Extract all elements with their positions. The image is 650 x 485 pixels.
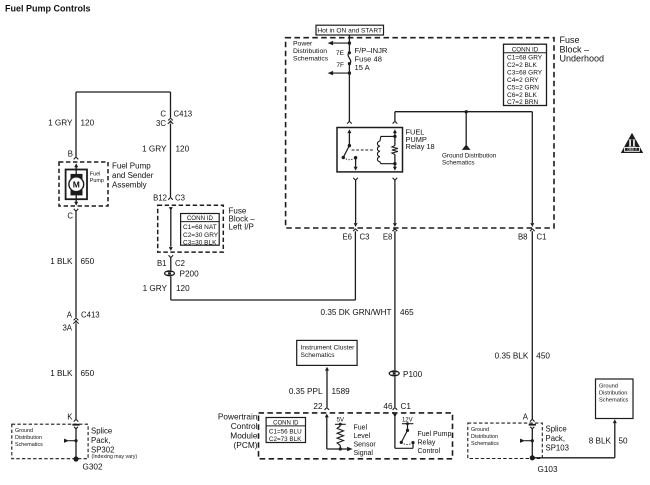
svg-text:120: 120 (81, 119, 95, 128)
svg-text:Schematics: Schematics (471, 441, 499, 447)
svg-text:Power: Power (293, 41, 313, 48)
svg-text:P200: P200 (180, 270, 200, 279)
svg-text:SP103: SP103 (546, 444, 569, 453)
svg-text:Schematics: Schematics (442, 159, 475, 166)
svg-text:Ground: Ground (599, 383, 618, 389)
svg-text:450: 450 (536, 351, 550, 360)
svg-text:C3: C3 (360, 233, 370, 242)
svg-text:Fuel: Fuel (90, 172, 101, 178)
svg-text:C413: C413 (81, 310, 100, 319)
svg-text:Instrument Cluster: Instrument Cluster (301, 344, 356, 351)
svg-text:C1=68 NAT: C1=68 NAT (183, 224, 217, 231)
svg-text:C1=68 GRY: C1=68 GRY (507, 55, 543, 62)
svg-text:1 BLK: 1 BLK (50, 257, 73, 266)
svg-text:Relay 18: Relay 18 (406, 142, 435, 151)
svg-text:CONN ID: CONN ID (273, 421, 299, 427)
svg-text:Underhood: Underhood (560, 54, 605, 64)
svg-text:OBD II: OBD II (627, 148, 637, 152)
svg-text:C1=56 BLU: C1=56 BLU (269, 428, 302, 435)
svg-text:M: M (73, 179, 80, 189)
svg-text:120: 120 (176, 145, 190, 154)
svg-text:1 GRY: 1 GRY (143, 284, 168, 293)
svg-text:CONN ID: CONN ID (512, 46, 539, 53)
svg-text:C2: C2 (175, 259, 185, 268)
svg-text:C6=2 BLK: C6=2 BLK (507, 92, 537, 99)
svg-text:C: C (160, 110, 166, 119)
svg-text:Signal: Signal (354, 450, 374, 457)
svg-text:Pump: Pump (90, 178, 104, 184)
svg-text:Distribution: Distribution (293, 48, 327, 55)
svg-text:1 BLK: 1 BLK (50, 369, 73, 378)
svg-text:1 GRY: 1 GRY (48, 119, 73, 128)
svg-text:Left I/P: Left I/P (229, 223, 254, 232)
svg-text:1589: 1589 (332, 387, 351, 396)
svg-text:3C: 3C (156, 119, 166, 128)
svg-text:650: 650 (81, 257, 95, 266)
svg-text:G302: G302 (83, 463, 103, 472)
svg-text:C3: C3 (175, 193, 185, 202)
svg-text:C4=2 GRY: C4=2 GRY (507, 77, 539, 84)
svg-text:46: 46 (383, 402, 393, 411)
svg-text:C2=30 GRY: C2=30 GRY (183, 232, 219, 239)
svg-text:8 BLK: 8 BLK (589, 436, 612, 445)
svg-text:Ground Distribution: Ground Distribution (442, 152, 497, 159)
svg-text:C3=30 BLK: C3=30 BLK (183, 240, 217, 247)
svg-text:B: B (68, 150, 73, 159)
svg-text:E8: E8 (383, 233, 393, 242)
svg-text:7F: 7F (336, 62, 344, 69)
svg-text:B12: B12 (153, 193, 167, 202)
svg-text:C2=2 BLK: C2=2 BLK (507, 62, 537, 69)
svg-text:Fuel Pump: Fuel Pump (418, 431, 452, 438)
svg-text:G103: G103 (538, 465, 558, 474)
svg-text:C5=2 GRN: C5=2 GRN (507, 84, 539, 91)
svg-text:3A: 3A (62, 324, 72, 333)
svg-text:Schematics: Schematics (599, 397, 629, 403)
svg-text:C1: C1 (537, 232, 547, 241)
svg-text:Relay: Relay (418, 440, 436, 447)
svg-text:0.35 DK GRN/WHT: 0.35 DK GRN/WHT (321, 308, 392, 317)
svg-text:Splice: Splice (546, 425, 567, 434)
svg-text:C3=68 GRY: C3=68 GRY (507, 70, 543, 77)
svg-text:Control: Control (418, 448, 441, 455)
svg-text:Hot in ON and START: Hot in ON and START (317, 28, 382, 35)
svg-text:0.35 PPL: 0.35 PPL (289, 387, 323, 396)
svg-text:P100: P100 (403, 370, 423, 379)
svg-text:Fuel: Fuel (354, 425, 368, 432)
svg-text:7E: 7E (336, 50, 345, 57)
svg-text:Pack,: Pack, (91, 436, 111, 445)
svg-text:0.35 BLK: 0.35 BLK (495, 351, 529, 360)
svg-text:Distribution: Distribution (471, 434, 498, 440)
svg-text:Sensor: Sensor (354, 442, 377, 449)
svg-text:Module: Module (230, 430, 258, 440)
svg-text:C413: C413 (174, 110, 193, 119)
svg-text:Schematics: Schematics (301, 352, 336, 359)
svg-text:A: A (523, 413, 529, 422)
svg-text:Ground: Ground (471, 427, 489, 433)
svg-text:CONN ID: CONN ID (187, 215, 214, 222)
svg-text:Control: Control (231, 421, 258, 431)
svg-text:C2=73 BLK: C2=73 BLK (269, 436, 302, 443)
svg-text:120: 120 (176, 284, 190, 293)
svg-text:B1: B1 (157, 259, 167, 268)
svg-text:C7=2 BRN: C7=2 BRN (507, 99, 539, 106)
svg-text:A: A (67, 310, 73, 319)
svg-text:Level: Level (354, 433, 371, 440)
svg-text:50: 50 (619, 436, 629, 445)
svg-text:and Sender: and Sender (112, 171, 154, 180)
svg-text:Fuel Pump: Fuel Pump (112, 162, 151, 171)
svg-text:Assembly: Assembly (112, 181, 147, 190)
svg-text:B8: B8 (518, 232, 528, 241)
svg-text:E6: E6 (342, 233, 352, 242)
svg-text:Schematics: Schematics (293, 56, 329, 63)
svg-text:C: C (67, 212, 73, 221)
svg-text:1 GRY: 1 GRY (142, 145, 167, 154)
svg-text:(PCM): (PCM) (234, 440, 258, 450)
svg-text:(Indexing may vary): (Indexing may vary) (92, 454, 138, 460)
svg-text:22: 22 (313, 402, 323, 411)
svg-text:C1: C1 (401, 402, 412, 411)
svg-text:465: 465 (400, 308, 414, 317)
svg-text:Pack,: Pack, (546, 434, 566, 443)
svg-text:Schematics: Schematics (15, 442, 43, 448)
svg-text:15 A: 15 A (355, 63, 371, 72)
svg-text:Distribution: Distribution (15, 435, 42, 441)
svg-text:650: 650 (81, 369, 95, 378)
svg-text:Distribution: Distribution (599, 390, 627, 396)
svg-text:Splice: Splice (91, 427, 112, 436)
svg-text:Fuel Pump Controls: Fuel Pump Controls (5, 4, 91, 14)
svg-text:Ground: Ground (15, 428, 33, 434)
svg-text:K: K (67, 413, 73, 422)
svg-text:Powertrain: Powertrain (218, 411, 258, 421)
